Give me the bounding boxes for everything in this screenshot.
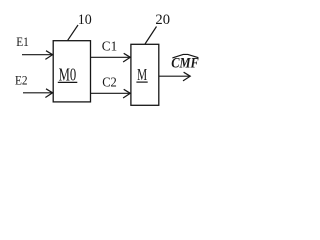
- svg-text:M0: M0: [59, 64, 77, 84]
- svg-text:10: 10: [78, 12, 92, 28]
- svg-text:M: M: [137, 65, 147, 84]
- svg-text:C1: C1: [102, 39, 117, 54]
- svg-text:C2: C2: [102, 75, 117, 90]
- svg-text:20: 20: [155, 12, 170, 28]
- svg-text:CMF: CMF: [171, 56, 199, 72]
- svg-text:E1: E1: [16, 35, 29, 49]
- svg-text:E2: E2: [15, 72, 28, 87]
